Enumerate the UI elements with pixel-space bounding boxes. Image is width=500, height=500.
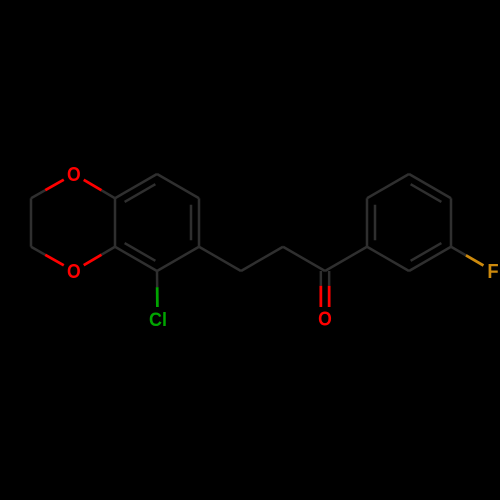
bond C8a-C8 (115, 174, 157, 198)
double Cr5=Cr6 inner (411, 243, 442, 261)
bond C5-Cl (156, 271, 159, 287)
bond C4a-C8a (114, 198, 117, 247)
bond C6-Ca (199, 247, 241, 271)
svg-text:F: F (487, 262, 498, 284)
svg-text:O: O (67, 260, 81, 282)
bond C=O line0 (320, 271, 323, 286)
bond C5-C4a (115, 247, 157, 271)
bond Cb-Cc (283, 247, 325, 271)
double C7=C6 inner (190, 205, 193, 241)
bond Cr6-Ci (367, 247, 409, 271)
bond C-F (451, 247, 466, 256)
svg-text:Cl: Cl (149, 308, 167, 330)
bond C6-C5 (157, 247, 199, 271)
bond C8-C7 (157, 174, 199, 198)
bond Cr4-Cr5 (450, 198, 453, 247)
bond Cc-Ci (325, 247, 367, 271)
bond C=O line1 (328, 271, 331, 286)
bond O4-C4a (84, 255, 102, 265)
double C8a=C8 inner (125, 184, 156, 202)
svg-text:O: O (318, 308, 332, 330)
bond Cr5-Cr6 (409, 247, 451, 271)
bond C3-O4 (31, 247, 45, 255)
bond C2-C3 (30, 198, 33, 247)
bond Ca-Cb (241, 247, 283, 271)
bond O1-C2 (45, 180, 64, 191)
svg-text:O: O (67, 163, 81, 185)
bond Ci-Cr2 (366, 198, 369, 247)
bond O1-C8a (84, 180, 102, 190)
bond C7-C6 (198, 198, 201, 247)
bond Cr2-Cr3 (367, 174, 409, 198)
double Ci=Cr2 inner (374, 205, 377, 241)
bond Cr3-Cr4 (409, 174, 451, 198)
double C5=C4a inner (125, 243, 156, 261)
double Cr3=Cr4 inner (411, 184, 442, 202)
